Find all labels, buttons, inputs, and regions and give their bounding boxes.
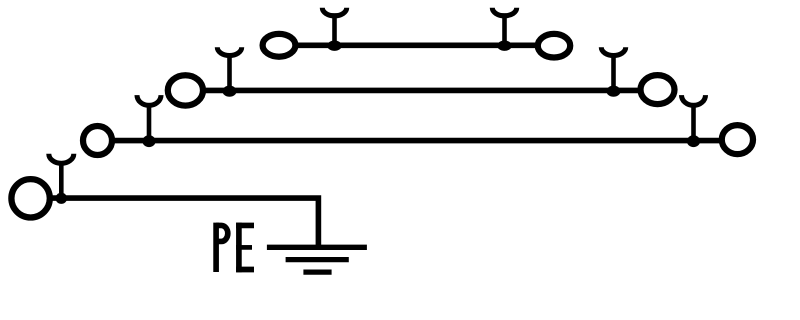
junction level 2 right <box>607 86 621 97</box>
junction level 1 left <box>327 41 341 51</box>
junction level 3 right <box>687 135 700 147</box>
junction level 4 <box>56 193 68 204</box>
tension clamp level 3 right <box>682 95 706 141</box>
wire level 4 PE bus <box>31 198 319 247</box>
terminal circle level 1 right <box>538 34 570 58</box>
tension clamp level 4 <box>49 154 74 198</box>
terminal circle level 3 right <box>722 125 753 154</box>
tension clamp level 2 right <box>601 47 625 90</box>
wire level 1 bus <box>279 42 554 48</box>
junction level 3 left <box>142 135 155 147</box>
ground symbol <box>267 247 367 272</box>
wire level 2 bus <box>185 88 657 94</box>
junction level 1 right <box>497 41 511 51</box>
terminal circle level 3 left <box>83 126 112 155</box>
tension clamp level 3 left <box>137 95 161 141</box>
wire level 3 bus <box>98 138 738 144</box>
tension clamp level 1 right <box>492 8 516 46</box>
junction level 2 left <box>223 86 237 97</box>
terminal circle level 1 left <box>263 34 296 57</box>
terminal circle level 2 right <box>641 75 675 104</box>
tension clamp level 2 left <box>217 47 241 90</box>
label PE <box>216 223 254 273</box>
terminal circle level 4 left <box>11 179 49 217</box>
terminal circle level 2 left <box>168 75 203 105</box>
tension clamp level 1 left <box>322 8 346 46</box>
